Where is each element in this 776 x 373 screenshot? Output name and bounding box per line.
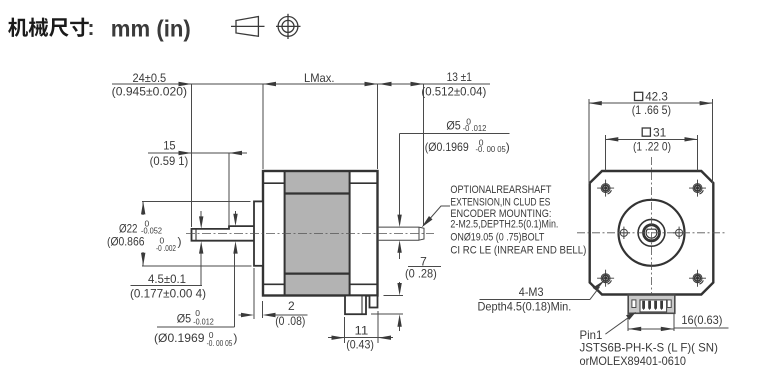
- svg-text:-0 .012: -0 .012: [463, 123, 487, 133]
- svg-text:EXTENSION,IN CLUD ES: EXTENSION,IN CLUD ES: [450, 197, 550, 209]
- svg-text:4.5±0.1: 4.5±0.1: [148, 272, 186, 286]
- svg-text:JSTS6B-PH-K-S (L F)( SN): JSTS6B-PH-K-S (L F)( SN): [580, 341, 718, 355]
- svg-text:): ): [233, 331, 237, 345]
- svg-text:-0. 00 05: -0. 00 05: [207, 338, 233, 348]
- svg-text:31: 31: [653, 125, 667, 139]
- svg-text:LMax.: LMax.: [304, 71, 335, 85]
- svg-text:-0. 00 05: -0. 00 05: [476, 144, 507, 154]
- svg-text:): ): [506, 140, 510, 154]
- svg-text:CI RC LE (INREAR END BELL): CI RC LE (INREAR END BELL): [450, 245, 586, 257]
- svg-text:(1 .66 5): (1 .66 5): [632, 103, 671, 117]
- svg-text:11: 11: [355, 324, 369, 338]
- svg-text:16(0.63): 16(0.63): [681, 313, 722, 327]
- svg-text:15: 15: [163, 139, 176, 153]
- svg-text:(Ø0.1969: (Ø0.1969: [154, 331, 205, 345]
- svg-text:(0.177±0.00 4): (0.177±0.00 4): [130, 287, 206, 301]
- svg-text:(0.59 1): (0.59 1): [150, 154, 189, 168]
- svg-text:(0.945±0.020): (0.945±0.020): [112, 85, 187, 99]
- svg-text:42.3: 42.3: [645, 90, 668, 104]
- svg-text:(0.43): (0.43): [346, 338, 374, 352]
- svg-text:(Ø0.866: (Ø0.866: [107, 235, 145, 249]
- svg-text:-0.012: -0.012: [193, 317, 214, 327]
- svg-text:): ): [178, 235, 182, 249]
- svg-text:Ø22: Ø22: [119, 222, 138, 236]
- svg-text:Ø5: Ø5: [177, 312, 192, 326]
- svg-text:Ø5: Ø5: [446, 119, 461, 133]
- svg-text:(0.512±0.04): (0.512±0.04): [421, 85, 486, 99]
- svg-text:Depth4.5(0.18)Min.: Depth4.5(0.18)Min.: [478, 300, 572, 314]
- svg-text:4-M3: 4-M3: [519, 285, 544, 299]
- svg-text:(0 .28): (0 .28): [405, 267, 437, 281]
- svg-text:(Ø0.1969: (Ø0.1969: [425, 140, 469, 154]
- svg-text:(0 .08): (0 .08): [275, 314, 305, 328]
- svg-text:2-M2.5,DEPTH2.5(0.1)Min.: 2-M2.5,DEPTH2.5(0.1)Min.: [450, 219, 558, 231]
- svg-text:(1 .22 0): (1 .22 0): [633, 139, 671, 153]
- svg-text:-0 .002: -0 .002: [156, 243, 176, 253]
- svg-text:24±0.5: 24±0.5: [133, 71, 167, 85]
- svg-text:OPTIONALREARSHAFT: OPTIONALREARSHAFT: [450, 184, 551, 196]
- svg-text::: :: [88, 17, 95, 40]
- svg-text:orMOLEX89401-0610: orMOLEX89401-0610: [580, 354, 687, 368]
- svg-text:13 ±1: 13 ±1: [447, 70, 473, 84]
- svg-text:ONØ19.05 (0 .75)BOLT: ONØ19.05 (0 .75)BOLT: [450, 232, 544, 244]
- svg-text:2: 2: [288, 299, 295, 313]
- svg-text:mm (in): mm (in): [111, 16, 191, 42]
